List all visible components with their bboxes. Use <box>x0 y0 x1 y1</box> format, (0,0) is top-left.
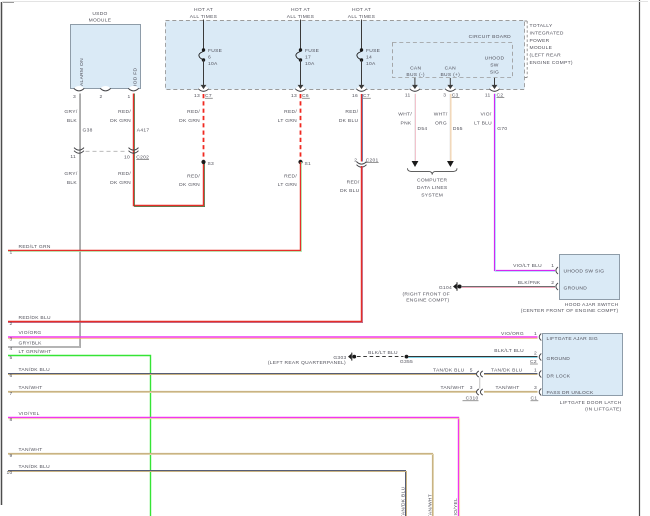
svg-text:14: 14 <box>366 55 372 61</box>
svg-text:TOTALLY: TOTALLY <box>530 23 553 29</box>
svg-text:BUS (-): BUS (-) <box>406 72 424 78</box>
wire BLK/LT BLU to latch ground pin 2 <box>408 357 537 358</box>
label HOT AT ALL TIMES 3 <box>348 7 376 20</box>
svg-text:D55: D55 <box>453 126 463 132</box>
liftgate door latch box <box>543 334 623 413</box>
svg-text:ALARM ON: ALARM ON <box>79 58 85 86</box>
svg-text:9: 9 <box>9 453 12 459</box>
svg-text:VIO/ORG: VIO/ORG <box>501 331 524 337</box>
svg-text:CAN: CAN <box>410 66 421 72</box>
svg-text:LT GRN: LT GRN <box>278 118 297 124</box>
svg-text:LT GRN: LT GRN <box>278 182 297 188</box>
svg-text:10: 10 <box>124 155 130 161</box>
svg-text:8: 8 <box>9 417 12 423</box>
svg-text:ALL TIMES: ALL TIMES <box>348 14 376 20</box>
svg-text:11: 11 <box>405 93 411 99</box>
border frame top faint <box>2 1 648 3</box>
svg-text:RED/: RED/ <box>187 174 200 180</box>
svg-text:1: 1 <box>534 368 537 374</box>
svg-text:HOT AT: HOT AT <box>291 7 310 13</box>
pin exit gaps on fuse box bottom edge <box>198 86 499 92</box>
svg-text:GROUND: GROUND <box>547 356 571 362</box>
svg-text:10A: 10A <box>305 61 315 67</box>
wire WHT/PNK D54 <box>412 94 419 167</box>
svg-text:13: 13 <box>291 93 297 99</box>
label GRY/BLK lower <box>64 171 77 186</box>
pin 1 latch LIFTGATE AJAR SIG <box>539 334 541 341</box>
svg-text:ENGINE COMPT): ENGINE COMPT) <box>406 298 449 304</box>
svg-text:FUSE: FUSE <box>366 48 381 54</box>
pin 1 of USDO module <box>127 88 138 100</box>
svg-text:2: 2 <box>534 351 537 357</box>
svg-text:2: 2 <box>551 280 554 286</box>
svg-text:RED/: RED/ <box>284 109 297 115</box>
svg-text:TAN/DK BLU: TAN/DK BLU <box>19 464 51 470</box>
label BLK/LT BLU at latch <box>494 348 538 365</box>
svg-text:TAN/WHT: TAN/WHT <box>495 385 519 391</box>
svg-text:3: 3 <box>9 337 12 343</box>
svg-text:RED/DK BLU: RED/DK BLU <box>19 315 52 321</box>
label CAN BUS (+) <box>440 66 460 78</box>
ground G303 <box>268 353 356 366</box>
svg-text:17: 17 <box>305 55 311 61</box>
svg-text:SYSTEM: SYSTEM <box>421 193 443 199</box>
label RED/DK BLU at left edge line 2 <box>9 315 51 327</box>
svg-text:1: 1 <box>127 94 130 100</box>
wire VIO/LT BLU G70 from pin C2 down to hood switch <box>495 94 556 272</box>
wire stub CAN BUS (-) to pin 11 <box>405 78 420 99</box>
label VIO/LT BLU upper <box>474 112 492 127</box>
svg-text:G38: G38 <box>83 128 93 134</box>
wire RED/LT GRN from S1 down and left to line 1 <box>8 162 302 252</box>
label RED/LT GRN below S1 <box>278 174 298 189</box>
svg-text:WHT/: WHT/ <box>398 112 412 118</box>
wire RED/DK BLU fuse14 to C201 <box>362 94 363 162</box>
svg-text:BLK/LT BLU: BLK/LT BLU <box>368 350 398 356</box>
pin 1 latch DR LOCK <box>539 371 541 378</box>
line 4 wire GRY/BLK left edge label <box>9 340 42 352</box>
svg-text:DK GRN: DK GRN <box>179 118 200 124</box>
line 10 wire TAN/DK BLU down at x406.5 <box>6 464 406 516</box>
svg-text:IOD FD: IOD FD <box>133 67 139 86</box>
connector link line C310 <box>479 377 481 388</box>
svg-text:(RIGHT FRONT OF: (RIGHT FRONT OF <box>402 292 450 298</box>
svg-text:USDO: USDO <box>92 11 107 17</box>
connector C310 row 1 <box>477 371 483 377</box>
svg-text:RED/LT GRN: RED/LT GRN <box>19 244 51 250</box>
TIPM fuse box (dashed, blue fill) <box>166 21 525 90</box>
svg-text:LT GRN/WHT: LT GRN/WHT <box>19 349 52 355</box>
fuse F17 10A <box>296 48 320 67</box>
label HOT AT ALL TIMES 2 <box>287 7 315 20</box>
svg-text:D54: D54 <box>418 126 428 132</box>
svg-text:GRY/: GRY/ <box>64 171 77 177</box>
wire feed into fuse 17 <box>300 20 302 51</box>
svg-text:G355: G355 <box>400 359 413 365</box>
ground G104 <box>402 282 461 303</box>
wire RED/DK BLU from C201 down and left to line 2 <box>8 166 363 323</box>
svg-text:BUS (+): BUS (+) <box>440 72 460 78</box>
svg-text:VIO/ORG: VIO/ORG <box>19 330 42 336</box>
wire TAN/WHT C310 to latch pin 3 <box>484 385 538 401</box>
svg-text:G104: G104 <box>439 285 452 291</box>
svg-text:VIO/LT BLU: VIO/LT BLU <box>513 263 542 269</box>
svg-text:COMPUTER: COMPUTER <box>417 178 448 184</box>
wire BLK/LT BLU dashed ground link <box>357 350 404 356</box>
wire BLK/PNK ground to switch pin 2 <box>462 287 555 288</box>
svg-text:5: 5 <box>9 355 12 361</box>
svg-text:INTEGRATED: INTEGRATED <box>530 30 564 36</box>
svg-text:HOT AT: HOT AT <box>352 7 371 13</box>
label VIO/ORG at latch <box>501 331 537 337</box>
pin 2 hood ajar switch <box>551 280 558 290</box>
label WHT/ORG <box>434 112 448 127</box>
label UHOOD SW SIG <box>485 56 505 76</box>
svg-text:RED/: RED/ <box>118 109 131 115</box>
svg-text:2: 2 <box>99 94 102 100</box>
TIPM name bracket <box>525 21 528 78</box>
pin 2 of USDO module <box>99 88 110 100</box>
line 3 wire VIO/ORG to liftgate latch <box>8 330 538 342</box>
svg-text:PNK: PNK <box>401 121 412 127</box>
line 5 wire LT GRN/WHT down at x150 <box>8 349 151 516</box>
svg-text:FUSE: FUSE <box>305 48 320 54</box>
svg-text:4: 4 <box>9 346 12 352</box>
label HOT AT ALL TIMES 1 <box>190 7 218 20</box>
svg-text:MODULE: MODULE <box>89 18 112 24</box>
hood ajar switch box <box>521 255 620 315</box>
border frame right <box>639 0 641 516</box>
svg-text:WHT/: WHT/ <box>434 112 448 118</box>
svg-text:1: 1 <box>551 263 554 269</box>
label RED/DK BLU below C201 <box>340 180 360 195</box>
label RED/LT GRN at left edge line 1 <box>9 244 50 255</box>
svg-text:DK BLU: DK BLU <box>339 118 359 124</box>
svg-text:CAN: CAN <box>445 66 456 72</box>
border frame left <box>1 2 3 505</box>
svg-text:3: 3 <box>443 93 446 99</box>
svg-text:(CENTER FRONT OF ENGINE COMPT): (CENTER FRONT OF ENGINE COMPT) <box>521 308 619 314</box>
wire TAN/DK BLU C310 to latch pin 1 <box>484 368 538 375</box>
svg-text:GRY/: GRY/ <box>64 109 77 115</box>
pin 3 latch PASS DR UNLOCK <box>539 389 541 396</box>
svg-text:GROUND: GROUND <box>564 285 588 291</box>
label COMPUTER DATA LINES SYSTEM <box>417 178 448 199</box>
line 7 wire TAN/WHT to C310 <box>8 385 476 397</box>
label TOTALLY INTEGRATED POWER MODULE <box>530 23 573 66</box>
wire fuse 6 to pin 13 C7 <box>194 60 213 99</box>
brace computer data lines <box>408 168 458 174</box>
svg-text:UHOOD: UHOOD <box>485 56 505 62</box>
label GRY/BLK upper <box>64 109 77 124</box>
svg-text:BLK/LT BLU: BLK/LT BLU <box>494 348 524 354</box>
svg-text:S1: S1 <box>305 161 312 167</box>
svg-text:RED/: RED/ <box>347 180 360 186</box>
module U1 USDO MODULE box <box>71 11 141 91</box>
svg-text:ENGINE COMPT): ENGINE COMPT) <box>530 60 573 66</box>
label TAN/WHT pin 3 at C310 <box>440 385 472 391</box>
svg-text:10A: 10A <box>366 61 376 67</box>
wire GRY/BLK G38 vertical from pin3 down to line 4 <box>8 94 81 348</box>
svg-text:A417: A417 <box>137 128 150 134</box>
border frame top-left mark <box>3 2 14 4</box>
svg-text:SW: SW <box>490 63 499 69</box>
svg-text:DK GRN: DK GRN <box>179 182 200 188</box>
svg-text:BLK: BLK <box>67 118 78 124</box>
svg-text:DK GRN: DK GRN <box>110 118 131 124</box>
svg-text:13: 13 <box>194 93 200 99</box>
svg-text:1: 1 <box>534 331 537 337</box>
label CAN BUS (-) <box>406 66 424 78</box>
svg-text:VIO/YEL: VIO/YEL <box>19 411 40 417</box>
svg-text:TAN/WHT: TAN/WHT <box>440 385 464 391</box>
svg-text:RED/: RED/ <box>187 109 200 115</box>
svg-text:PASS DR UNLOCK: PASS DR UNLOCK <box>547 390 594 396</box>
svg-text:FUSE: FUSE <box>208 48 223 54</box>
svg-text:ORG: ORG <box>435 121 447 127</box>
fuse F6 10A <box>199 48 223 67</box>
svg-text:2: 2 <box>9 321 12 327</box>
svg-text:3: 3 <box>470 385 473 391</box>
svg-text:(IN LIFTGATE): (IN LIFTGATE) <box>585 407 621 413</box>
svg-text:RED/: RED/ <box>284 174 297 180</box>
svg-text:VIO/YEL: VIO/YEL <box>453 498 459 516</box>
svg-text:3: 3 <box>73 94 76 100</box>
wire feed into fuse 14 <box>361 20 363 51</box>
svg-text:RED/: RED/ <box>118 171 131 177</box>
line 9 wire TAN/WHT down at x432.5 <box>8 447 434 516</box>
svg-text:2: 2 <box>354 157 357 163</box>
pin 2 latch GROUND <box>539 354 541 361</box>
label WHT/PNK <box>398 112 412 127</box>
svg-text:1: 1 <box>9 250 12 256</box>
svg-text:11: 11 <box>70 154 76 160</box>
svg-text:16: 16 <box>352 93 358 99</box>
wire RED/DK GRN A417 from pin1 down through C202, U-turn up to S3 <box>134 94 205 207</box>
svg-text:6: 6 <box>9 373 12 379</box>
splice S3 <box>201 160 214 167</box>
svg-text:TAN/WHT: TAN/WHT <box>19 385 43 391</box>
svg-text:DATA LINES: DATA LINES <box>417 185 448 191</box>
svg-text:TAN/DK BLU: TAN/DK BLU <box>19 367 51 373</box>
svg-text:10A: 10A <box>208 61 218 67</box>
svg-text:ALL TIMES: ALL TIMES <box>190 14 218 20</box>
wire feed into fuse 6 <box>203 20 205 51</box>
svg-text:TAN/WHT: TAN/WHT <box>19 447 43 453</box>
connector C310 row 2 <box>463 389 483 402</box>
svg-text:DK BLU: DK BLU <box>340 188 360 194</box>
svg-text:BLK/PNK: BLK/PNK <box>518 280 541 286</box>
svg-text:3: 3 <box>534 385 537 391</box>
wire RED/DK GRN dashed fuse6 to splice S3 <box>203 94 205 161</box>
svg-text:CIRCUIT BOARD: CIRCUIT BOARD <box>469 34 512 40</box>
svg-text:DK GRN: DK GRN <box>110 180 131 186</box>
svg-text:DR LOCK: DR LOCK <box>547 374 571 380</box>
line 8 wire VIO/YEL down at x458.5 <box>8 411 460 516</box>
wire RED/LT GRN dashed fuse17 to splice S1 <box>300 94 302 161</box>
svg-text:VIO/: VIO/ <box>481 112 492 118</box>
wire stub CAN BUS (+) to pin 3 C3 <box>443 78 459 99</box>
svg-text:11: 11 <box>485 93 491 99</box>
svg-text:TAN/DK BLU: TAN/DK BLU <box>401 486 407 516</box>
svg-text:BLK: BLK <box>67 180 78 186</box>
svg-text:LIFTGATE AJAR SIG: LIFTGATE AJAR SIG <box>547 336 598 342</box>
svg-text:6: 6 <box>208 55 211 61</box>
fuse F14 10A <box>357 48 381 67</box>
svg-text:HOT AT: HOT AT <box>194 7 213 13</box>
label RED/DK GRN upper <box>110 109 131 124</box>
wire fuse 14 to pin 16 C7 <box>352 60 371 99</box>
line 6 wire TAN/DK BLU to C310 <box>8 367 476 379</box>
svg-text:TAN/DK BLU: TAN/DK BLU <box>491 368 523 374</box>
label TAN/DK BLU pin 5 at C310 <box>433 368 473 374</box>
svg-text:S3: S3 <box>208 161 215 167</box>
svg-text:10: 10 <box>6 470 12 476</box>
pin 3 of USDO module <box>73 88 84 100</box>
label RED/DK GRN lower <box>110 171 131 186</box>
svg-text:TAN/WHT: TAN/WHT <box>427 494 433 516</box>
svg-text:G70: G70 <box>497 126 507 132</box>
svg-text:MODULE: MODULE <box>530 45 553 51</box>
svg-text:UHOOD SW SIG: UHOOD SW SIG <box>564 268 605 274</box>
splice S1 <box>298 160 311 167</box>
svg-text:GRY/BLK: GRY/BLK <box>19 340 43 346</box>
svg-text:5: 5 <box>470 368 473 374</box>
svg-text:(LEFT REAR: (LEFT REAR <box>530 53 562 59</box>
label RED/DK BLU on fuse14 wire <box>339 109 359 124</box>
wire fuse 17 to pin 13 C6 <box>291 60 310 99</box>
svg-text:LT BLU: LT BLU <box>474 121 492 127</box>
wire stub UHOOD SW SIG to pin 11 C2 <box>485 78 504 99</box>
svg-text:(LEFT REAR QUARTERPANEL): (LEFT REAR QUARTERPANEL) <box>268 360 346 366</box>
svg-text:ALL TIMES: ALL TIMES <box>287 14 315 20</box>
svg-text:TAN/DK BLU: TAN/DK BLU <box>433 368 465 374</box>
svg-text:LIFTGATE DOOR LATCH: LIFTGATE DOOR LATCH <box>560 400 622 406</box>
connector C202 inline <box>70 148 149 161</box>
label RED/DK GRN below S3 <box>179 174 200 189</box>
wire WHT/ORG D55 <box>447 94 454 167</box>
svg-text:SIG: SIG <box>490 70 499 76</box>
circuit board inner dashed box <box>393 43 513 78</box>
label RED/LT GRN on fuse17 dashed wire <box>278 109 298 124</box>
label RED/DK GRN on fuse6 dashed wire <box>179 109 200 124</box>
svg-text:7: 7 <box>9 391 12 397</box>
pin 1 hood ajar switch <box>551 263 558 274</box>
svg-text:POWER: POWER <box>530 38 550 44</box>
svg-text:RED/: RED/ <box>345 109 358 115</box>
connector C201 inline <box>354 157 378 167</box>
svg-text:HOOD AJAR SWITCH: HOOD AJAR SWITCH <box>565 302 619 308</box>
splice G355 <box>400 355 413 366</box>
